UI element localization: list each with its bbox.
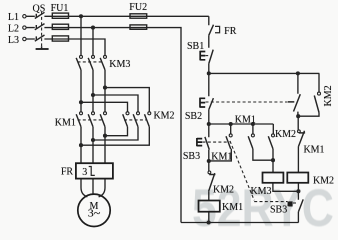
svg-text:FU1: FU1 [51, 3, 69, 14]
svg-text:3: 3 [82, 167, 87, 178]
svg-text:SB1: SB1 [187, 41, 204, 52]
svg-text:FR: FR [61, 167, 74, 178]
svg-text:KM2: KM2 [275, 129, 296, 140]
svg-text:KM2: KM2 [323, 85, 334, 106]
svg-text:KM3: KM3 [109, 59, 130, 70]
svg-text:KM2: KM2 [313, 175, 334, 186]
svg-text:FR: FR [224, 26, 237, 37]
svg-text:SB3: SB3 [270, 205, 287, 216]
svg-text:QS: QS [33, 4, 46, 15]
svg-text:KM1: KM1 [211, 151, 232, 162]
svg-text:SB2: SB2 [185, 111, 202, 122]
svg-text:L3: L3 [8, 35, 19, 46]
svg-text:FU2: FU2 [129, 2, 147, 13]
svg-text:KM1: KM1 [55, 118, 76, 129]
svg-text:SB3: SB3 [183, 151, 200, 162]
svg-text:3~: 3~ [88, 208, 101, 219]
svg-text:KM1: KM1 [222, 202, 243, 213]
svg-text:KM1: KM1 [235, 115, 256, 126]
svg-text:KM2: KM2 [213, 184, 234, 195]
svg-text:KM3: KM3 [250, 186, 271, 197]
svg-text:L2: L2 [8, 24, 19, 35]
svg-text:L1: L1 [8, 12, 19, 23]
svg-text:KM1: KM1 [303, 144, 324, 155]
svg-text:KM2: KM2 [153, 111, 174, 122]
